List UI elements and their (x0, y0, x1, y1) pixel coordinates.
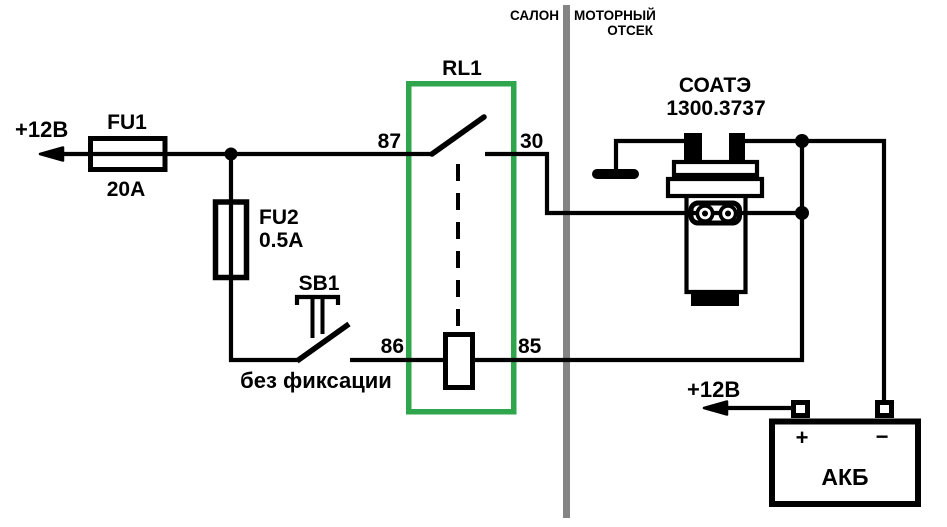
wire: battery plus to +12V arrow (707, 406, 793, 410)
svg-text:МОТОРНЫЙ: МОТОРНЫЙ (574, 8, 656, 23)
svg-text:+12В: +12В (15, 117, 68, 142)
svg-text:87: 87 (378, 130, 401, 153)
horn terminal block with two screw terminals (691, 203, 740, 223)
battery АКБ (772, 403, 918, 505)
svg-text:1300.3737: 1300.3737 (666, 97, 765, 120)
node +12V arrow (battery plus feed) (704, 402, 727, 415)
svg-text:САЛОН: САЛОН (510, 8, 559, 23)
svg-text:FU1: FU1 (107, 111, 147, 134)
svg-text:85: 85 (518, 335, 542, 358)
actuator cap (297, 297, 338, 305)
svg-text:ОТСЕК: ОТСЕК (607, 23, 654, 38)
svg-text:0.5А: 0.5А (259, 229, 303, 252)
relay box RL1 (green outline) (409, 84, 514, 412)
wire: right horn terminal to battery minus (740, 141, 884, 402)
svg-text:30: 30 (520, 130, 543, 153)
minus terminal (878, 403, 892, 416)
horn СОАТЭ 1300.3737 body (668, 133, 762, 306)
junction node (horn + wire / battery) (795, 134, 809, 148)
upper flange (674, 162, 757, 175)
relay armature dashed link (456, 164, 460, 328)
svg-text:RL1: RL1 (442, 57, 482, 80)
relay coil (446, 335, 473, 388)
svg-text:+12В: +12В (687, 377, 740, 402)
left terminal post (684, 133, 702, 163)
right terminal post (729, 133, 745, 163)
svg-text:−: − (876, 424, 889, 449)
plus terminal (794, 403, 808, 416)
bottom cap (691, 292, 739, 306)
fuse FU1 (91, 139, 166, 170)
junction node (FU1 / FU2 branch) (225, 148, 238, 161)
wire: SB1 to relay pin 86, through coil, pin 85 out to solenoid branch (350, 141, 802, 360)
blade (297, 324, 349, 361)
wire: relay pin 30 to horn terminal block (485, 154, 802, 213)
svg-text:АКБ: АКБ (821, 464, 868, 490)
fuse FU2 (216, 202, 247, 278)
relay contact blade (pin 87) (432, 117, 484, 154)
node +12V arrow (left feed) (40, 148, 63, 161)
actuator rod (311, 299, 315, 338)
firewall divider (салон / моторный отсек) (563, 5, 570, 518)
svg-text:20А: 20А (107, 178, 146, 201)
label МОТОРНЫЙ ОТСЕК (574, 8, 656, 38)
wire: +12V feed to relay pin 87 (44, 152, 432, 156)
svg-text:86: 86 (381, 335, 404, 358)
svg-text:+: + (796, 425, 809, 450)
body shell (687, 196, 746, 292)
wire: branch from junction down through FU2 to SB1 (231, 154, 298, 360)
wire ground to left horn terminal (616, 141, 690, 174)
svg-text:СОАТЭ: СОАТЭ (679, 74, 751, 97)
svg-text:без фиксации: без фиксации (240, 368, 392, 393)
junction node (horn + wire / relay 30) (795, 206, 809, 220)
switch SB1 (momentary push button) (297, 297, 349, 361)
svg-text:FU2: FU2 (259, 206, 299, 229)
ground symbol (597, 141, 690, 174)
svg-text:SB1: SB1 (299, 272, 340, 295)
lower flange (668, 179, 762, 196)
